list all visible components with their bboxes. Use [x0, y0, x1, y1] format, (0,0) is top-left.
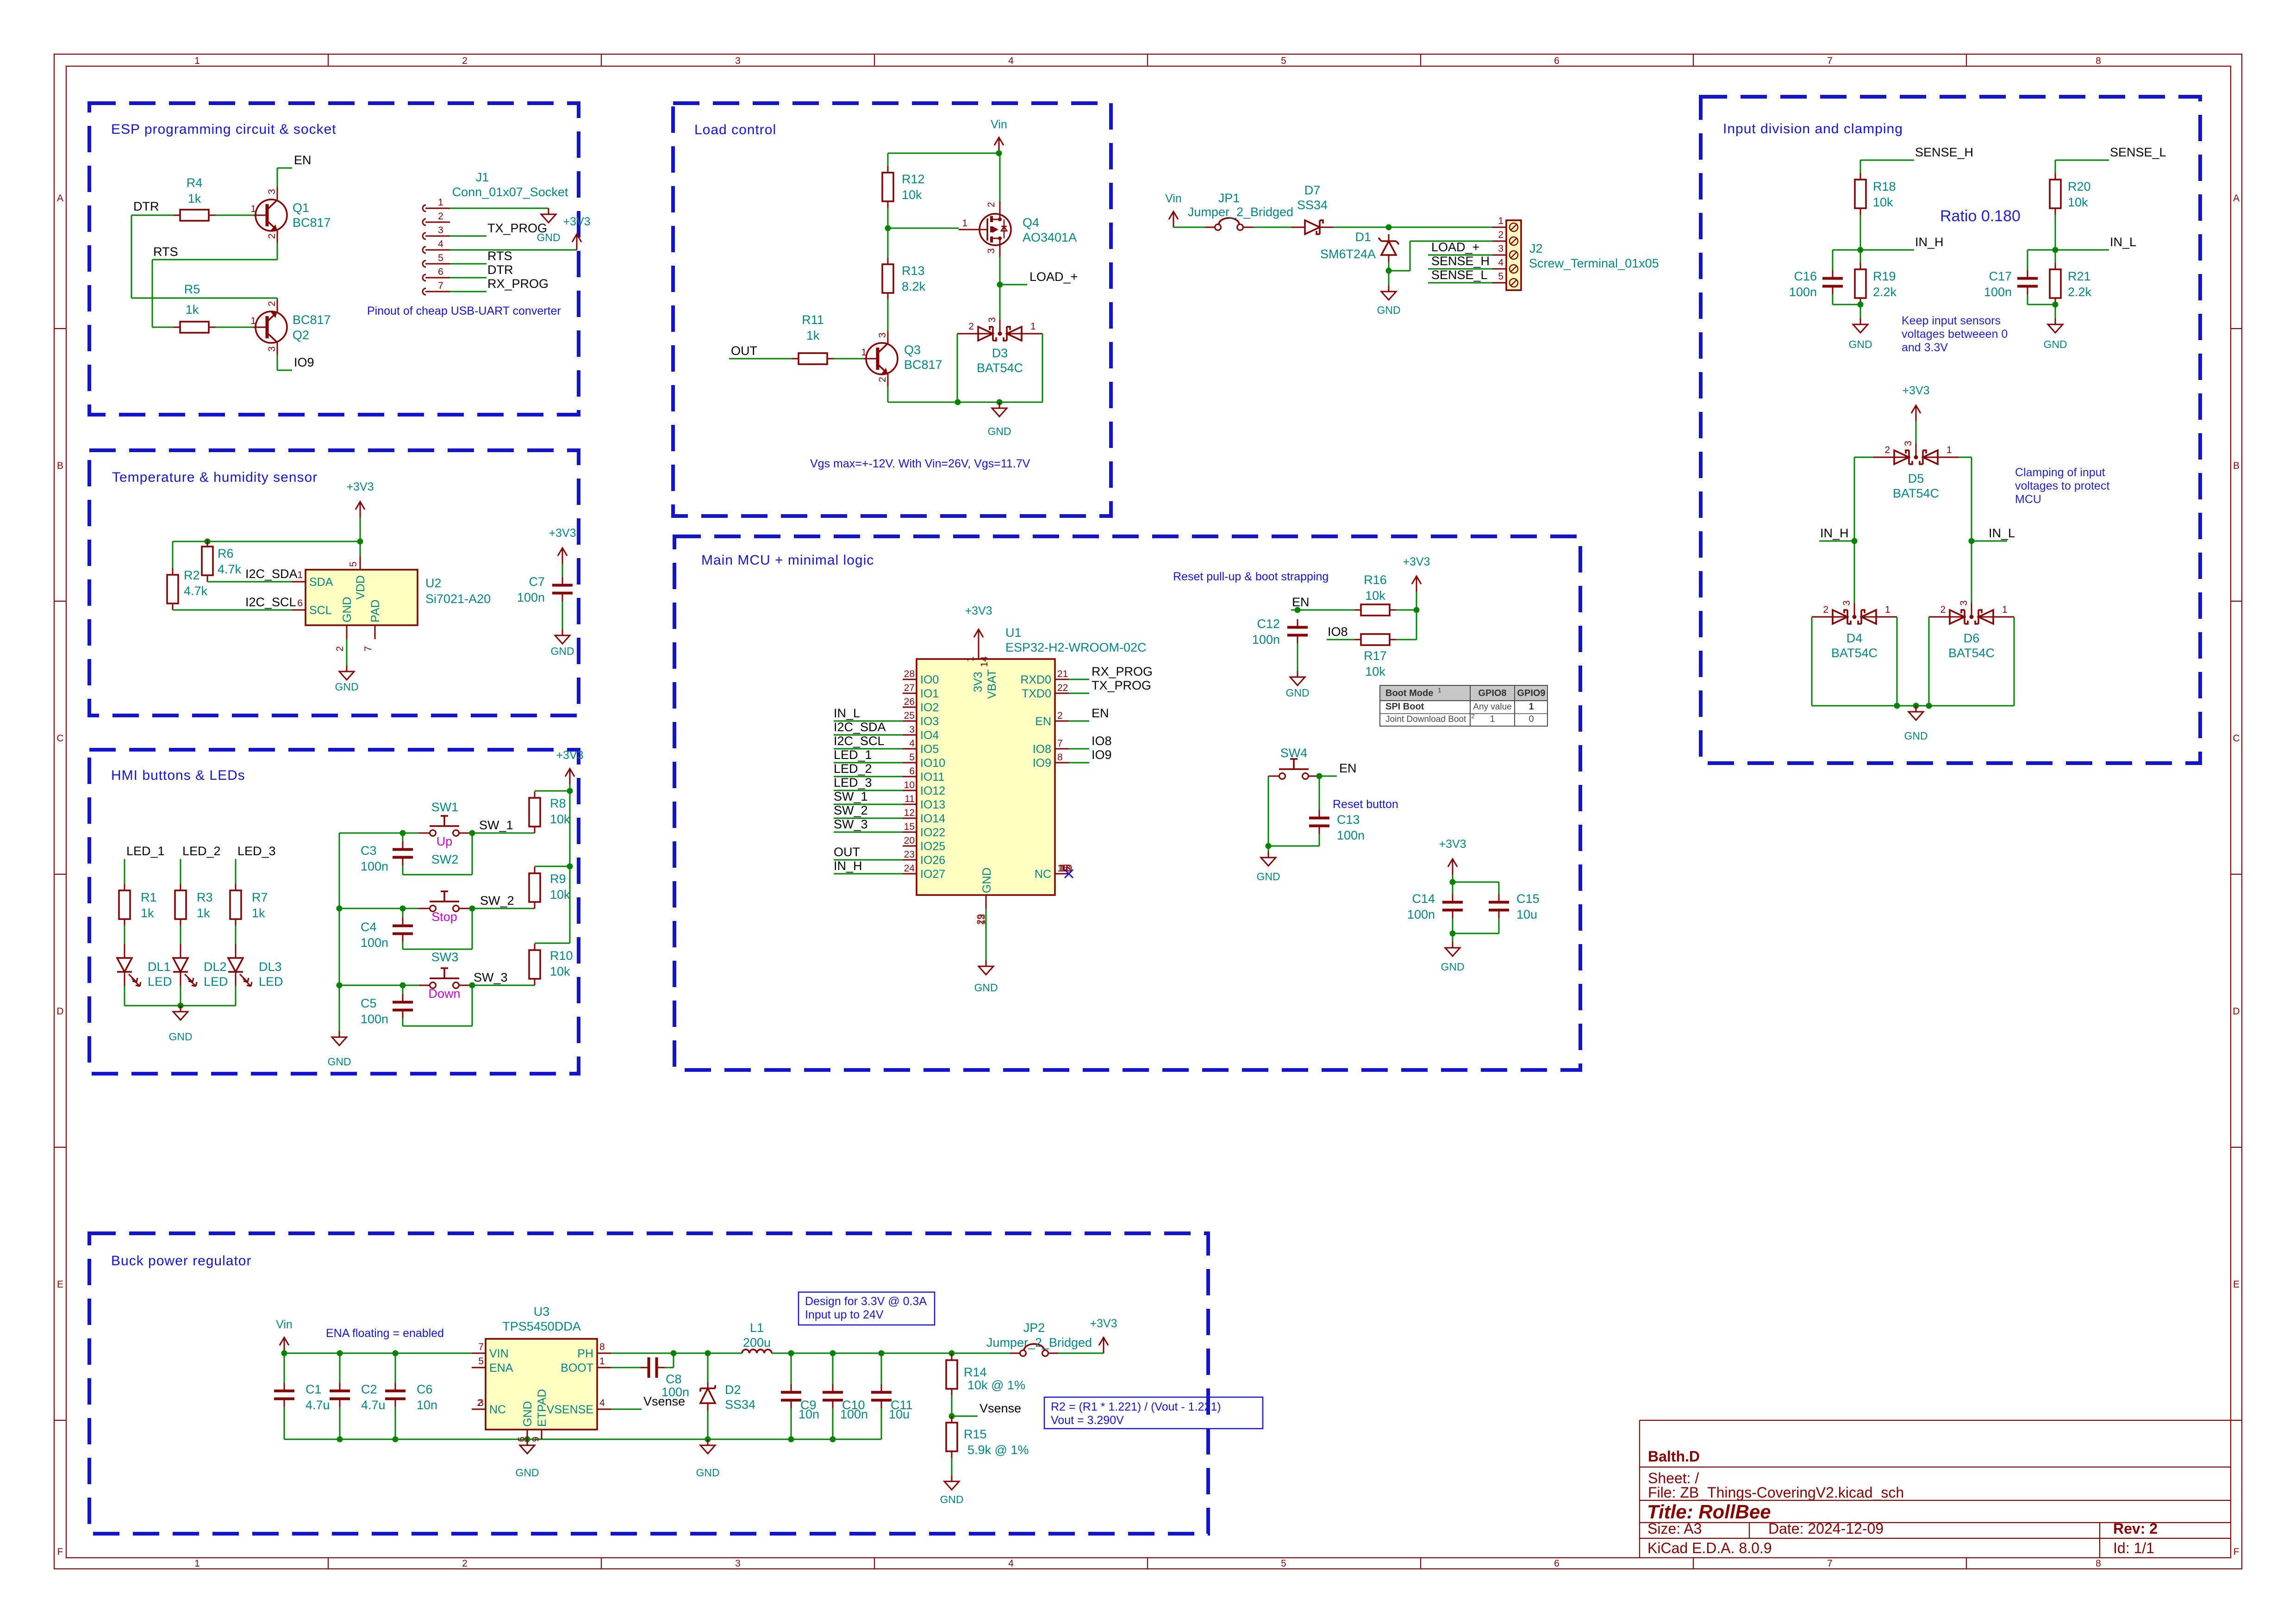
section title: Buck power regulator	[111, 1253, 251, 1269]
svg-text:IO22: IO22	[920, 826, 945, 839]
wire C5 top	[402, 985, 404, 994]
wire Vin to JP1	[1173, 227, 1205, 228]
svg-text:RX_PROG: RX_PROG	[487, 277, 549, 291]
wire SW_2 to U1 IO14	[834, 818, 903, 819]
svg-text:VDD: VDD	[354, 575, 367, 600]
net label SENSE_L at J2	[1431, 268, 1488, 282]
svg-text:1k: 1k	[197, 906, 210, 920]
capacitor C11	[871, 1384, 913, 1421]
diode D2 SS34	[700, 1382, 755, 1412]
wire LED_3 to R7	[235, 859, 237, 884]
wire switch row SW_2 left	[339, 906, 419, 912]
capacitor C2	[330, 1382, 386, 1412]
wire LED_3 to U1 IO12	[834, 790, 903, 791]
svg-text:SW_2: SW_2	[834, 803, 868, 817]
jumper JP1	[1188, 191, 1293, 230]
svg-text:C7: C7	[529, 575, 545, 589]
wire R10 top to bus	[535, 943, 570, 944]
svg-text:Jumper_2_Bridged: Jumper_2_Bridged	[1188, 205, 1293, 219]
svg-text:1: 1	[962, 218, 967, 229]
wire U1 IO8 to IO8	[1069, 748, 1089, 750]
power Vin at input	[1165, 192, 1182, 227]
wire Q3 collector to R13	[887, 299, 889, 331]
net label IN_L	[2110, 235, 2136, 249]
svg-text:1: 1	[1030, 321, 1036, 332]
svg-text:5: 5	[348, 561, 359, 567]
wire D2 bottom	[707, 1411, 709, 1439]
section box: HMI buttons &amp; LEDs	[89, 750, 579, 1074]
power +3V3 above U1	[965, 604, 992, 645]
net label IN_H at U1	[834, 859, 862, 873]
wire R17 to +3V3 node	[1396, 639, 1416, 640]
svg-text:4.7u: 4.7u	[306, 1398, 330, 1412]
capacitor C14	[1407, 892, 1463, 921]
diode D7 SS34	[1291, 183, 1333, 234]
svg-text:D6: D6	[1964, 631, 1980, 645]
net label IO8 at R17	[1328, 625, 1348, 639]
svg-text:U1: U1	[1005, 626, 1022, 640]
svg-text:5: 5	[1498, 271, 1504, 282]
wire +3V3 to C7	[562, 564, 563, 577]
svg-text:+3V3: +3V3	[965, 604, 992, 617]
wire C9 top	[791, 1353, 792, 1384]
svg-text:GND: GND	[1285, 687, 1309, 699]
LED DL1	[117, 944, 172, 989]
svg-text:VBAT: VBAT	[986, 670, 998, 699]
svg-text:SW_1: SW_1	[834, 790, 868, 803]
net label SENSE_L	[2110, 145, 2166, 159]
svg-text:R12: R12	[902, 172, 925, 186]
wire C11 top	[881, 1353, 882, 1384]
svg-text:2: 2	[1884, 445, 1890, 455]
svg-text:I2C_SDA: I2C_SDA	[834, 720, 886, 734]
wire Q1 collector to EN	[277, 168, 292, 187]
svg-text:26: 26	[904, 696, 915, 707]
net label LED_1	[126, 844, 165, 858]
wire JP2 to +3V3	[1058, 1353, 1104, 1354]
switch right bus wire	[567, 784, 573, 943]
svg-text:+3V3: +3V3	[1902, 384, 1929, 397]
transistor Q1	[250, 187, 331, 243]
ground GND at J1 pin1	[537, 208, 560, 243]
net label OUT	[731, 344, 757, 358]
note box: R2 formula	[1044, 1397, 1263, 1429]
svg-text:21: 21	[1057, 669, 1068, 679]
svg-text:AO3401A: AO3401A	[1023, 230, 1077, 244]
note: keep input sensors voltages	[1902, 314, 2008, 354]
buck input rail wire	[281, 1350, 472, 1356]
svg-text:Joint Download Boot: Joint Download Boot	[1385, 715, 1466, 724]
wire R12 to R13 and Q4 gate	[885, 208, 959, 258]
wire C9 bottom	[791, 1408, 792, 1439]
power +3V3 at J1	[563, 215, 590, 250]
svg-text:24: 24	[904, 863, 915, 874]
wire I2C_SDA to U1 IO4	[834, 734, 903, 736]
svg-text:Any value: Any value	[1473, 702, 1511, 712]
ground below U1	[974, 960, 998, 994]
wire SW4 to C13	[1319, 776, 1320, 810]
svg-text:5: 5	[438, 253, 443, 263]
svg-text:R18: R18	[1873, 180, 1896, 193]
net label IO9 at U1 right	[1092, 748, 1112, 762]
svg-text:Jumper_2_Bridged: Jumper_2_Bridged	[986, 1336, 1092, 1349]
section box: Load control	[673, 103, 1111, 516]
svg-text:GND: GND	[1377, 304, 1400, 316]
svg-text:GND: GND	[1441, 961, 1464, 973]
resistor R17	[1354, 634, 1396, 678]
svg-text:JP2: JP2	[1023, 1321, 1045, 1335]
svg-text:IN_H: IN_H	[1915, 235, 1944, 249]
wire U1 RXD0 to RX_PROG	[1069, 679, 1089, 680]
net label I2C_SDA	[245, 567, 298, 581]
capacitor C8	[641, 1357, 689, 1399]
svg-text:7: 7	[438, 280, 443, 291]
wire C5 bottom loop	[403, 983, 475, 1026]
svg-text:6: 6	[516, 1436, 527, 1442]
wire DL1 to gnd rail	[124, 986, 125, 1006]
svg-text:10k: 10k	[902, 188, 922, 202]
svg-text:11: 11	[905, 794, 915, 804]
dual schottky D4 BAT54C	[1812, 600, 1897, 660]
wire SENSE_L to J2 pin5	[1428, 282, 1492, 284]
wire C4 top	[402, 908, 404, 918]
wire I2C_SCL to U1 IO5	[834, 748, 903, 750]
svg-text:Load control: Load control	[694, 122, 776, 137]
svg-text:GND: GND	[515, 1467, 539, 1479]
section title: Load control	[694, 122, 776, 137]
resistor R3	[175, 884, 213, 926]
svg-text:LED_2: LED_2	[834, 762, 872, 776]
svg-text:Screw_Terminal_01x05: Screw_Terminal_01x05	[1529, 256, 1659, 270]
note: ENA floating = enabled	[326, 1327, 444, 1340]
net label LOAD_+	[1029, 270, 1078, 284]
switch SW1	[419, 800, 470, 836]
net label RX_PROG at J1	[487, 277, 549, 291]
svg-text:A: A	[2233, 193, 2240, 204]
wire C14 C15 bottoms	[1450, 918, 1499, 942]
note: Vgs max	[810, 457, 1030, 470]
svg-text:Conn_01x07_Socket: Conn_01x07_Socket	[452, 185, 568, 199]
svg-text:IN_L: IN_L	[834, 706, 860, 720]
wire C1 top	[284, 1353, 285, 1383]
svg-text:100n: 100n	[361, 1012, 388, 1026]
resistor R21	[2050, 263, 2092, 305]
svg-text:10n: 10n	[799, 1407, 819, 1421]
svg-text:IO8: IO8	[1092, 734, 1112, 748]
svg-text:SENSE_L: SENSE_L	[2110, 145, 2166, 159]
svg-text:C13: C13	[1337, 813, 1360, 827]
wire D1 to GND node	[1386, 262, 1392, 286]
svg-text:Rev: 2: Rev: 2	[2113, 1520, 2158, 1537]
svg-text:IO26: IO26	[920, 854, 945, 867]
svg-text:R17: R17	[1364, 649, 1387, 663]
svg-text:TX_PROG: TX_PROG	[487, 221, 547, 235]
wire Vin rail	[888, 150, 1002, 156]
net label SW_3	[474, 970, 508, 984]
capacitor C4	[361, 918, 413, 950]
net label I2C_SCL	[245, 595, 296, 609]
svg-text:0: 0	[1529, 714, 1534, 724]
svg-text:1: 1	[1498, 216, 1504, 226]
wire J1 pin7 RX_PROG	[450, 291, 487, 292]
svg-text:1: 1	[194, 56, 200, 66]
svg-text:BAT54C: BAT54C	[1893, 486, 1939, 500]
section box: Main MCU + minimal logic	[674, 536, 1580, 1070]
wire SENSE_L to R20	[2055, 160, 2109, 173]
svg-text:LED_1: LED_1	[834, 748, 872, 762]
svg-text:200u: 200u	[743, 1336, 771, 1349]
switch SW3	[419, 950, 470, 989]
svg-text:BAT54C: BAT54C	[1831, 646, 1878, 660]
svg-text:C2: C2	[361, 1382, 377, 1396]
svg-text:2: 2	[335, 646, 345, 652]
capacitor C6	[385, 1382, 437, 1412]
switch SW4 reset button	[1268, 746, 1319, 779]
svg-text:R2 = (R1 * 1.221) / (Vout - 1.: R2 = (R1 * 1.221) / (Vout - 1.221)	[1051, 1400, 1221, 1413]
svg-text:4.7u: 4.7u	[361, 1398, 386, 1412]
power Vin in buck	[276, 1318, 293, 1353]
svg-text:LED_1: LED_1	[126, 844, 165, 858]
svg-text:1: 1	[1490, 714, 1495, 724]
svg-text:3: 3	[909, 724, 915, 735]
wire EN to R16	[1291, 607, 1354, 613]
net label LED_2 at U1	[834, 762, 872, 776]
svg-text:R15: R15	[964, 1427, 987, 1441]
svg-text:1k: 1k	[252, 906, 265, 920]
resistor R1	[119, 884, 157, 926]
wire Q4 source to LOAD_+	[997, 257, 1028, 320]
svg-text:20: 20	[904, 835, 915, 846]
resistor R10	[529, 944, 573, 985]
capacitor C5	[361, 994, 413, 1026]
svg-text:Vsense: Vsense	[643, 1394, 685, 1408]
svg-text:100n: 100n	[1337, 828, 1365, 842]
ground below LEDs	[168, 1006, 192, 1043]
svg-text:100n: 100n	[1407, 908, 1435, 921]
capacitor C15	[1489, 892, 1540, 921]
svg-text:4: 4	[1008, 56, 1014, 66]
svg-text:TX_PROG: TX_PROG	[1092, 678, 1151, 692]
svg-text:10n: 10n	[417, 1398, 437, 1412]
ground at U2	[335, 665, 358, 693]
svg-text:2.2k: 2.2k	[1873, 285, 1897, 299]
svg-text:IO8: IO8	[1328, 625, 1348, 639]
section title: Temperature &amp; humidity sensor	[112, 470, 318, 485]
connector J2 screw terminal	[1492, 216, 1659, 290]
net label TX_PROG at U1 right	[1092, 678, 1151, 692]
inductor L1	[742, 1321, 772, 1353]
connector J1	[423, 170, 568, 295]
svg-text:BAT54C: BAT54C	[977, 361, 1023, 375]
svg-text:3V3: 3V3	[972, 672, 985, 692]
section title: Input division and clamping	[1723, 121, 1903, 137]
wire SW4 right to EN	[1316, 773, 1337, 779]
wire R14 top	[951, 1353, 953, 1354]
svg-text:LOAD_+: LOAD_+	[1029, 270, 1078, 284]
svg-text:GND: GND	[550, 645, 574, 657]
svg-text:RX_PROG: RX_PROG	[1092, 665, 1153, 678]
svg-text:1: 1	[250, 204, 256, 214]
svg-text:C16: C16	[1794, 269, 1817, 283]
svg-text:U3: U3	[534, 1305, 550, 1318]
svg-text:10k @ 1%: 10k @ 1%	[967, 1378, 1025, 1392]
wire DTR net	[131, 215, 277, 298]
svg-text:2: 2	[1057, 710, 1063, 721]
svg-text:1k: 1k	[806, 329, 820, 342]
section box: Input division and clamping	[1701, 97, 2200, 763]
svg-text:GND: GND	[974, 982, 998, 994]
svg-text:D2: D2	[725, 1383, 741, 1397]
wire I2C_SCL	[173, 609, 292, 611]
svg-text:8: 8	[1057, 752, 1063, 763]
svg-text:MCU: MCU	[2015, 493, 2041, 506]
svg-text:R8: R8	[550, 796, 566, 810]
wire D5 pin1 to IN_L node	[1959, 457, 1975, 603]
net label LED_2	[182, 844, 221, 858]
wire U1 EN to EN	[1069, 721, 1089, 722]
svg-text:5: 5	[478, 1356, 484, 1367]
wire C17 R21 to gnd	[2028, 294, 2059, 318]
svg-text:Q1: Q1	[293, 201, 309, 215]
net label DTR at J1	[487, 263, 513, 277]
svg-text:Vin: Vin	[1165, 192, 1182, 205]
wire Q4 drain to Vin	[999, 153, 1001, 201]
IC U2 SI7021-A20	[292, 556, 491, 652]
no-connect X at U1 NC	[1065, 870, 1073, 878]
svg-text:Up: Up	[437, 834, 453, 848]
net label EN at U1 right	[1092, 706, 1109, 720]
svg-text:SCL: SCL	[309, 604, 332, 617]
wire Q1 emitter to RTS	[277, 243, 278, 260]
jumper JP2	[986, 1321, 1092, 1356]
svg-text:EN: EN	[294, 153, 312, 167]
svg-text:R2: R2	[184, 568, 200, 582]
svg-text:DL3: DL3	[259, 960, 282, 974]
svg-text:GND: GND	[1256, 871, 1280, 883]
net label LED_1 at U1	[834, 748, 872, 762]
resistor R7	[230, 884, 268, 926]
svg-text:+3V3: +3V3	[563, 215, 590, 228]
wire OUT to U1 IO26	[834, 859, 903, 861]
svg-text:LED: LED	[259, 975, 283, 989]
svg-text:DL2: DL2	[204, 960, 227, 974]
svg-text:RTS: RTS	[153, 245, 178, 259]
capacitor C13	[1309, 810, 1365, 842]
wire DL3 to gnd rail	[235, 986, 237, 1006]
wire U1 IO9 to IO9	[1069, 762, 1089, 764]
svg-text:LED_3: LED_3	[237, 844, 276, 858]
wire +3V3 to C14 C15	[1450, 875, 1499, 894]
wire SW_1 to R8	[470, 833, 535, 834]
resistor R16	[1354, 573, 1396, 616]
wire SW_3 to R10	[470, 985, 535, 986]
svg-text:I2C_SDA: I2C_SDA	[245, 567, 298, 581]
svg-text:DL1: DL1	[148, 960, 171, 974]
note: Pinout of cheap USB-UART converter	[367, 305, 561, 317]
wire IN_H to U1 IO27	[834, 873, 903, 875]
svg-text:IO14: IO14	[920, 812, 945, 825]
capacitor C17	[1984, 269, 2038, 299]
wire J1 pin6 DTR	[450, 277, 487, 279]
svg-text:6: 6	[297, 598, 303, 609]
svg-text:2: 2	[1940, 604, 1946, 615]
svg-text:OUT: OUT	[834, 845, 860, 859]
svg-text:SW_3: SW_3	[834, 817, 868, 831]
capacitor C3	[361, 841, 413, 873]
svg-text:10k: 10k	[1873, 195, 1893, 209]
resistor R2	[167, 568, 208, 610]
svg-text:10k: 10k	[550, 812, 570, 826]
svg-text:1: 1	[599, 1356, 605, 1367]
svg-text:1: 1	[297, 570, 303, 580]
svg-text:SW_3: SW_3	[474, 970, 508, 984]
svg-text:10k: 10k	[2068, 195, 2088, 209]
switch left bus wire	[337, 833, 343, 1031]
svg-text:5: 5	[1281, 1558, 1286, 1569]
transistor Q2	[250, 299, 331, 355]
svg-text:SENSE_H: SENSE_H	[1915, 145, 1973, 159]
net label DTR	[133, 199, 159, 213]
svg-text:7: 7	[1827, 1558, 1833, 1569]
wire C6 top	[395, 1353, 396, 1383]
svg-text:R1: R1	[141, 890, 157, 904]
svg-text:3: 3	[987, 317, 998, 323]
svg-text:Input division and clamping: Input division and clamping	[1723, 121, 1903, 137]
svg-text:IN_L: IN_L	[1989, 526, 2015, 540]
svg-text:2.2k: 2.2k	[2068, 285, 2092, 299]
svg-text:IO12: IO12	[920, 784, 945, 797]
capacitor C12	[1252, 617, 1308, 647]
resistor R20	[2050, 173, 2091, 215]
wire switch row SW_1 left	[339, 830, 419, 836]
power +3V3 above D5	[1902, 384, 1929, 421]
svg-text:1: 1	[965, 656, 976, 662]
svg-text:BC817: BC817	[904, 358, 942, 372]
svg-text:R5: R5	[184, 282, 200, 296]
wire C10 top	[832, 1353, 834, 1384]
svg-text:DTR: DTR	[487, 263, 513, 277]
svg-text:E: E	[57, 1279, 63, 1290]
svg-text:OUT: OUT	[731, 344, 757, 358]
svg-text:100n: 100n	[361, 859, 388, 873]
net label EN	[294, 153, 312, 167]
svg-text:voltages to protect: voltages to protect	[2015, 479, 2109, 492]
svg-text:1: 1	[1438, 686, 1441, 694]
svg-text:GND: GND	[696, 1467, 719, 1479]
wire Q2 emitter to IO9	[277, 355, 292, 370]
svg-text:3: 3	[735, 1558, 741, 1569]
wire R1 to DL1	[124, 926, 125, 944]
svg-text:5: 5	[1281, 56, 1286, 66]
svg-text:IO1: IO1	[920, 687, 939, 700]
svg-text:6: 6	[1554, 1558, 1560, 1569]
svg-text:U2: U2	[425, 576, 442, 590]
ground below D2	[696, 1439, 719, 1479]
svg-text:TPS5450DDA: TPS5450DDA	[502, 1319, 581, 1333]
svg-text:4: 4	[438, 239, 443, 249]
svg-text:voltages betweeen 0: voltages betweeen 0	[1902, 328, 2008, 341]
label Down	[428, 987, 460, 1001]
net label SW_2	[480, 894, 514, 908]
wire C2 top	[339, 1353, 341, 1383]
svg-text:R14: R14	[964, 1365, 987, 1379]
svg-text:GND: GND	[327, 1056, 351, 1068]
svg-text:8: 8	[2096, 1558, 2101, 1569]
svg-text:+3V3: +3V3	[1403, 555, 1430, 568]
svg-text:2: 2	[267, 233, 277, 239]
svg-text:10: 10	[904, 780, 915, 790]
svg-text:Vout = 3.290V: Vout = 3.290V	[1051, 1414, 1124, 1427]
